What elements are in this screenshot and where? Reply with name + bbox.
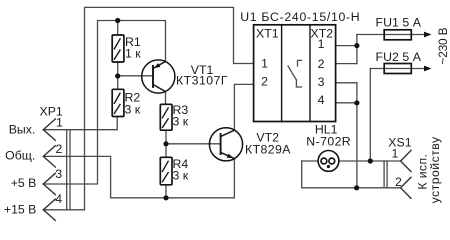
svg-text:N-702R: N-702R <box>306 135 351 149</box>
svg-text:КТ3107Г: КТ3107Г <box>176 74 228 88</box>
svg-text:1: 1 <box>318 37 325 51</box>
svg-text:FU1 5 А: FU1 5 А <box>376 16 422 30</box>
svg-text:~230 В: ~230 В <box>436 27 450 64</box>
svg-text:1: 1 <box>56 116 63 130</box>
svg-text:U1 БС-240-15/10-Н: U1 БС-240-15/10-Н <box>240 10 360 24</box>
svg-text:FU2 5 А: FU2 5 А <box>376 50 422 64</box>
svg-text:Общ.: Общ. <box>5 149 35 163</box>
svg-text:3 к: 3 к <box>173 169 189 183</box>
svg-text:1: 1 <box>392 147 399 161</box>
svg-text:3 к: 3 к <box>125 103 141 117</box>
svg-text:1: 1 <box>261 57 268 71</box>
svg-text:1 к: 1 к <box>125 47 141 61</box>
svg-text:2: 2 <box>395 175 402 189</box>
svg-text:2: 2 <box>56 142 63 156</box>
svg-text:Вых.: Вых. <box>9 123 36 137</box>
svg-text:3 к: 3 к <box>173 115 189 129</box>
svg-text:2: 2 <box>261 75 268 89</box>
svg-text:КТ829А: КТ829А <box>245 143 291 157</box>
svg-text:устройству: устройству <box>428 136 442 203</box>
svg-text:3: 3 <box>55 167 62 181</box>
svg-text:2: 2 <box>318 57 325 71</box>
svg-text:4: 4 <box>55 192 62 206</box>
svg-text:XT1: XT1 <box>256 26 279 40</box>
svg-text:4: 4 <box>318 93 325 107</box>
svg-text:+15 В: +15 В <box>4 202 36 216</box>
svg-text:3: 3 <box>318 75 325 89</box>
svg-text:+5 В: +5 В <box>11 176 37 190</box>
